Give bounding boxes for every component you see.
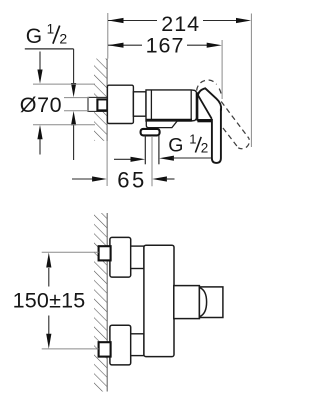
bottom escutcheon (front view): [110, 325, 131, 365]
top union nut: [99, 246, 111, 260]
svg-text:G: G: [168, 134, 183, 156]
svg-text:1: 1: [189, 132, 196, 147]
wall hatch (front view): [94, 213, 107, 392]
extension line: dashed lever tip for 214: [250, 14, 252, 148]
handle hub (front view): [174, 286, 200, 319]
outlet pipe centerline extension: [151, 136, 153, 186]
svg-text:150±15: 150±15: [13, 289, 86, 313]
leader from G1/2 label to supply pipe: up arrow: [71, 111, 76, 160]
dashed lever handle (alternate 45-degree position): [197, 80, 250, 149]
solid lever bar (pointing down, top view): [212, 109, 221, 163]
valve body (top view): [146, 90, 198, 121]
svg-text:167: 167: [146, 34, 185, 58]
outlet collar nut: [141, 129, 160, 136]
bottom union nut: [99, 342, 111, 356]
solid lever hub (knuckle, top view): [197, 88, 221, 121]
dimension 167: [108, 34, 222, 58]
dimension Ø70: upper arrow: [37, 52, 42, 84]
svg-text:Ø70: Ø70: [20, 93, 62, 117]
dimension Ø70: lower arrow: [37, 125, 42, 155]
lever end dome arc: [200, 288, 207, 317]
svg-text:G: G: [26, 25, 42, 48]
wire: wall face extension line up to 214/167 dimensions: [107, 13, 109, 59]
extension lines for 150±15: [42, 252, 99, 349]
outlet elbow housing under body: [146, 121, 177, 128]
top escutcheon (front view): [110, 237, 131, 277]
svg-text:2: 2: [59, 31, 67, 47]
wire: wall face extension line down to 65-dimension: [106, 141, 108, 186]
svg-text:1: 1: [47, 22, 55, 37]
dimension 65: [72, 168, 175, 193]
concealed supply pipe stub behind wall: [88, 97, 107, 111]
label G 1/2 (lower, outlet thread): [168, 132, 208, 157]
wall flange (escutcheon, top view): [107, 85, 133, 123]
bottom connector (front view): [131, 334, 144, 356]
svg-text:2: 2: [201, 141, 209, 156]
top connector (front view): [131, 246, 144, 268]
extension lines of supply pipe edges: [64, 98, 89, 111]
valve body (front view): [144, 245, 174, 356]
connector between flange and body (top view): [133, 92, 146, 116]
wall hatch (top view): [94, 59, 107, 141]
extension line: solid lever outer edge for 167: [221, 40, 223, 99]
svg-text:65: 65: [117, 168, 146, 193]
label G 1/2 (upper, wall connection): [25, 22, 74, 49]
extension lines of flange edges for Ø70: [33, 84, 95, 125]
lever (front view): [199, 287, 223, 318]
svg-text:214: 214: [161, 12, 200, 36]
G1/2 thread arrows at outlet pipe: [114, 156, 211, 162]
dimension 150±15: [13, 253, 86, 349]
dimension 214: [108, 12, 251, 36]
outlet pipe (shower hose connection): [145, 135, 159, 164]
leader from G1/2 label to supply pipe: down arrow: [71, 49, 76, 97]
